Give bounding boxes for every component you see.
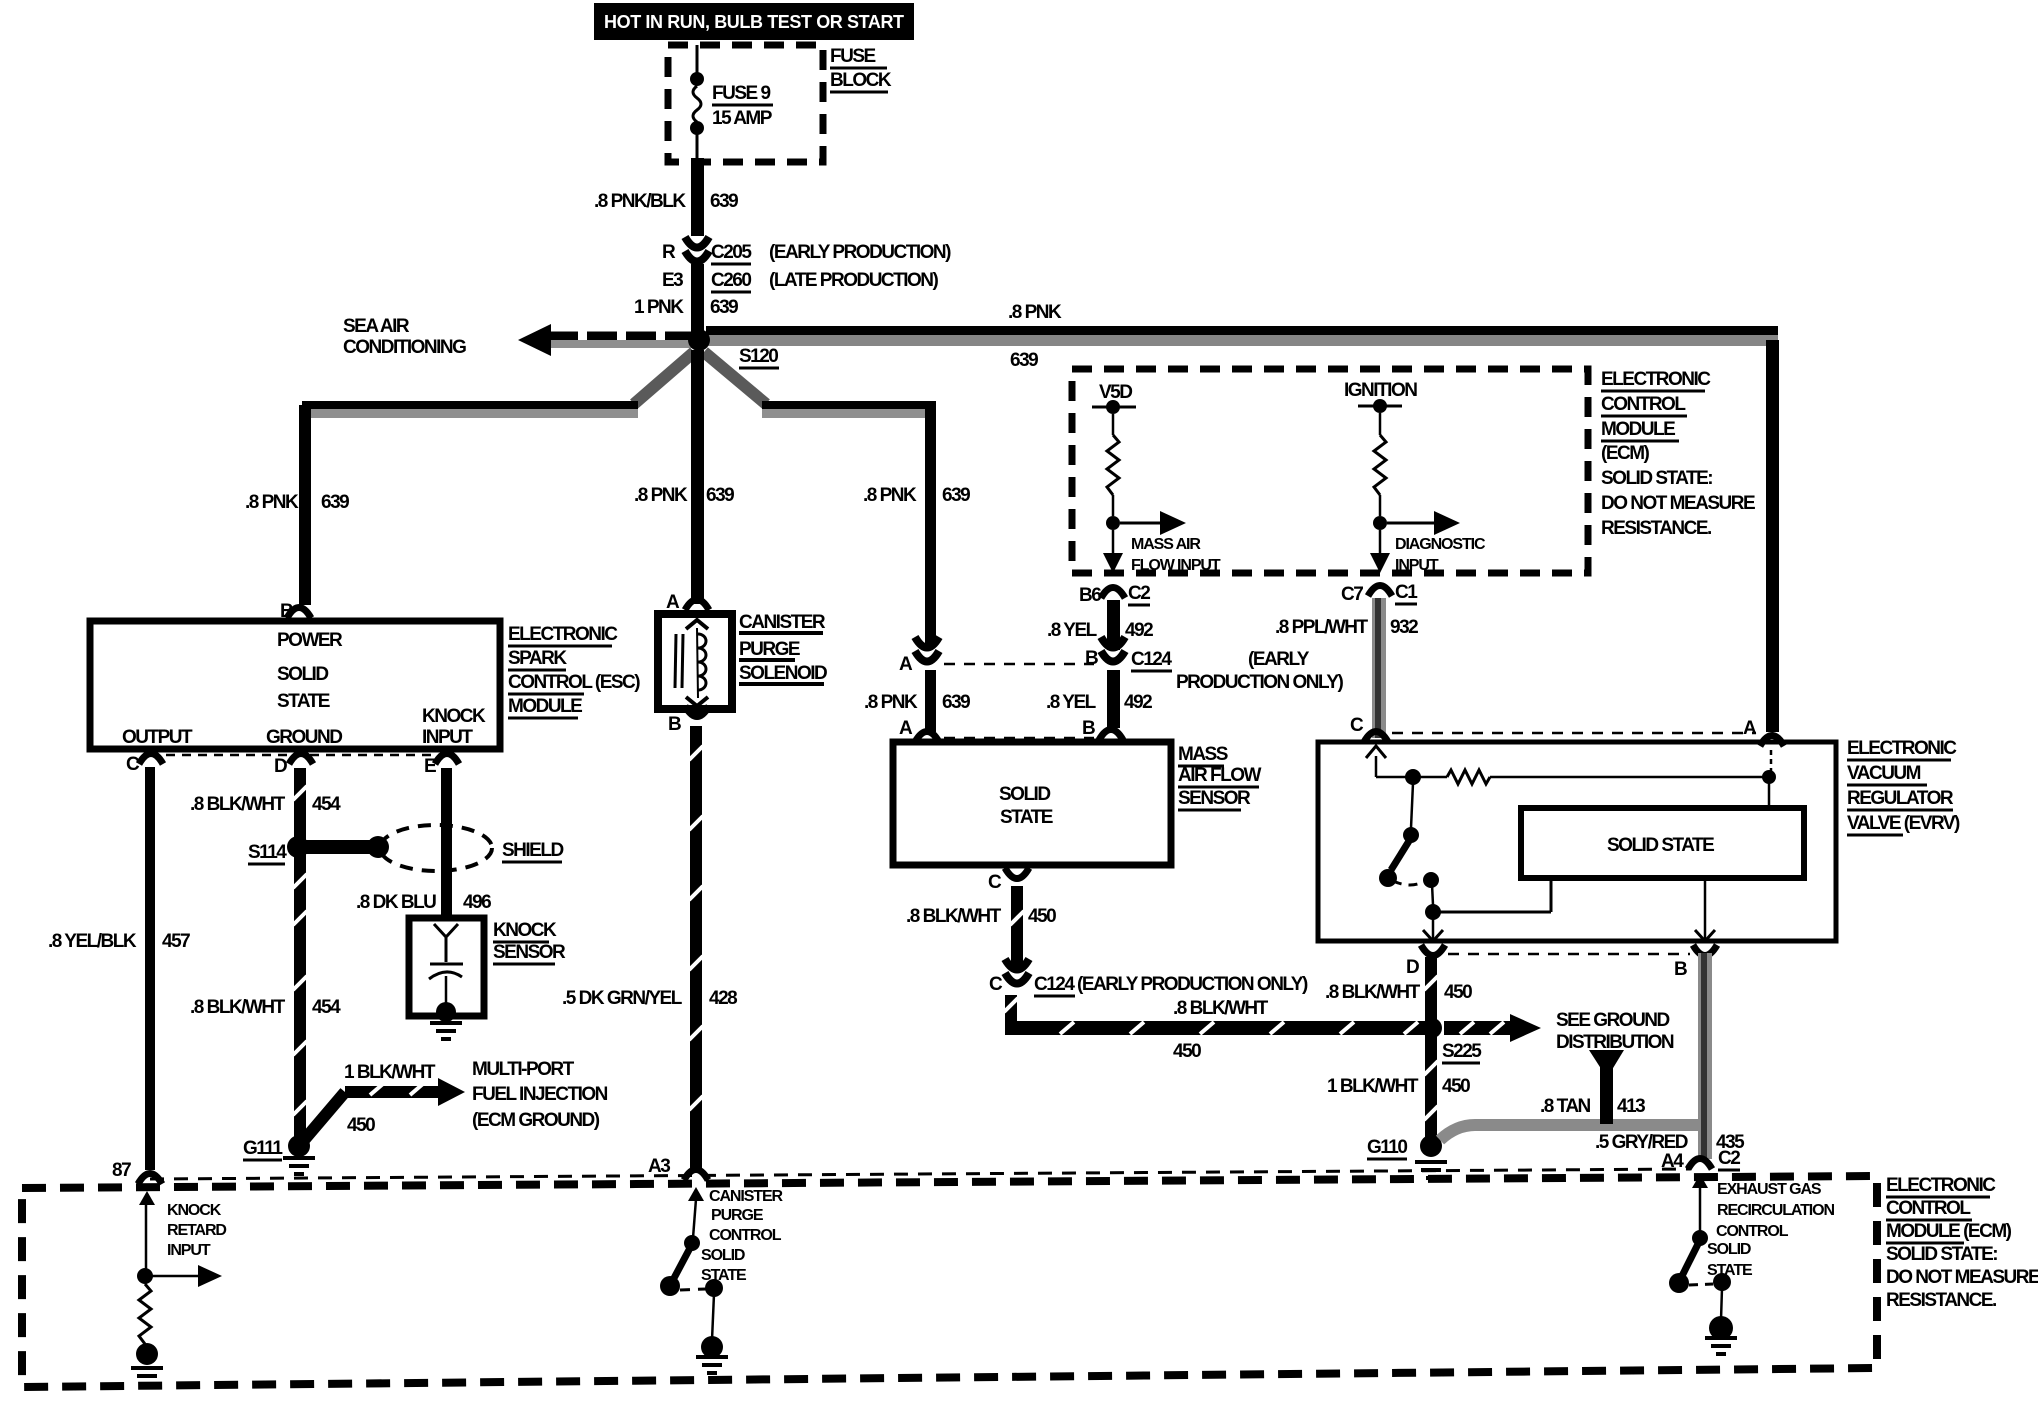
svg-text:OUTPUT: OUTPUT (122, 727, 193, 748)
svg-text:ELECTRONIC: ELECTRONIC (508, 624, 618, 645)
svg-text:.8 BLK/WHT: .8 BLK/WHT (906, 906, 1002, 927)
svg-text:STATE: STATE (1000, 807, 1053, 828)
svg-text:FUEL INJECTION: FUEL INJECTION (472, 1084, 608, 1105)
svg-text:C124: C124 (1131, 649, 1172, 670)
svg-text:MODULE (ECM): MODULE (ECM) (1886, 1221, 2012, 1242)
svg-text:RECIRCULATION: RECIRCULATION (1717, 1202, 1834, 1219)
svg-text:15 AMP: 15 AMP (712, 108, 773, 129)
svg-text:1 BLK/WHT: 1 BLK/WHT (1327, 1076, 1419, 1097)
svg-text:DO NOT MEASURE: DO NOT MEASURE (1886, 1267, 2038, 1288)
svg-text:CONTROL: CONTROL (1716, 1223, 1789, 1240)
svg-text:B6: B6 (1079, 585, 1101, 606)
svg-text:D: D (1406, 957, 1419, 978)
svg-text:639: 639 (321, 492, 349, 513)
svg-text:SENSOR: SENSOR (1178, 788, 1251, 809)
svg-text:DISTRIBUTION: DISTRIBUTION (1556, 1032, 1674, 1053)
svg-text:492: 492 (1125, 620, 1153, 641)
svg-text:.8 DK BLU: .8 DK BLU (356, 892, 436, 913)
svg-text:E3: E3 (662, 270, 683, 291)
svg-text:C2: C2 (1718, 1148, 1740, 1169)
svg-text:496: 496 (463, 892, 491, 913)
svg-text:C1: C1 (1395, 582, 1418, 603)
svg-text:SEA AIR: SEA AIR (343, 316, 410, 337)
svg-text:S225: S225 (1442, 1041, 1482, 1062)
svg-text:CONTROL (ESC): CONTROL (ESC) (508, 672, 640, 693)
svg-text:SHIELD: SHIELD (502, 840, 563, 861)
svg-text:639: 639 (706, 485, 734, 506)
svg-text:CONTROL: CONTROL (1886, 1198, 1971, 1219)
svg-text:S114: S114 (248, 842, 287, 863)
svg-text:SOLID STATE:: SOLID STATE: (1601, 468, 1712, 489)
svg-text:C260: C260 (711, 270, 751, 291)
svg-text:639: 639 (942, 692, 970, 713)
svg-text:CANISTER: CANISTER (739, 612, 826, 633)
svg-text:413: 413 (1617, 1096, 1645, 1117)
svg-text:932: 932 (1390, 617, 1418, 638)
svg-text:450: 450 (1028, 906, 1056, 927)
svg-text:D: D (274, 756, 287, 777)
svg-text:CONTROL: CONTROL (709, 1227, 782, 1244)
svg-text:.8 BLK/WHT: .8 BLK/WHT (190, 794, 286, 815)
svg-text:STATE: STATE (277, 691, 330, 712)
svg-text:.8 BLK/WHT: .8 BLK/WHT (1173, 998, 1269, 1019)
svg-text:A: A (899, 654, 913, 675)
svg-text:C: C (1350, 715, 1364, 736)
svg-text:ELECTRONIC: ELECTRONIC (1847, 738, 1957, 759)
svg-text:450: 450 (1442, 1076, 1470, 1097)
svg-text:1 PNK: 1 PNK (634, 297, 684, 318)
svg-text:(EARLY PRODUCTION): (EARLY PRODUCTION) (769, 242, 951, 263)
svg-text:E: E (424, 756, 436, 777)
svg-text:.8 PNK/BLK: .8 PNK/BLK (594, 191, 686, 212)
svg-text:639: 639 (1010, 350, 1038, 371)
svg-text:HOT IN RUN, BULB TEST OR START: HOT IN RUN, BULB TEST OR START (604, 12, 904, 32)
svg-text:STATE: STATE (1707, 1262, 1753, 1279)
svg-text:FLOW INPUT: FLOW INPUT (1131, 557, 1221, 574)
svg-text:B: B (1085, 648, 1098, 669)
svg-text:(LATE PRODUCTION): (LATE PRODUCTION) (769, 270, 939, 291)
svg-text:PRODUCTION ONLY): PRODUCTION ONLY) (1176, 672, 1344, 693)
svg-text:STATE: STATE (701, 1267, 747, 1284)
svg-text:ELECTRONIC: ELECTRONIC (1601, 369, 1711, 390)
svg-text:ELECTRONIC: ELECTRONIC (1886, 1175, 1996, 1196)
svg-text:.8 YEL: .8 YEL (1046, 692, 1097, 713)
svg-text:INPUT: INPUT (1395, 557, 1439, 574)
svg-text:C124: C124 (1034, 974, 1075, 995)
svg-text:MASS: MASS (1178, 744, 1228, 765)
svg-text:BLOCK: BLOCK (830, 70, 892, 91)
svg-text:.8 PNK: .8 PNK (864, 692, 918, 713)
svg-text:INPUT: INPUT (422, 727, 473, 748)
svg-text:R: R (662, 242, 676, 263)
svg-text:A: A (1743, 718, 1757, 739)
svg-text:(EARLY PRODUCTION ONLY): (EARLY PRODUCTION ONLY) (1077, 974, 1308, 995)
svg-text:1 BLK/WHT: 1 BLK/WHT (344, 1062, 436, 1083)
svg-text:G111: G111 (243, 1138, 283, 1159)
svg-text:SOLID: SOLID (701, 1247, 745, 1264)
svg-text:.8 YEL: .8 YEL (1047, 620, 1098, 641)
svg-text:SENSOR: SENSOR (493, 942, 566, 963)
svg-text:CONDITIONING: CONDITIONING (343, 337, 466, 358)
svg-text:SOLID STATE:: SOLID STATE: (1886, 1244, 1997, 1265)
svg-text:(ECM GROUND): (ECM GROUND) (472, 1110, 600, 1131)
svg-text:C7: C7 (1341, 584, 1363, 605)
svg-text:MULTI-PORT: MULTI-PORT (472, 1059, 575, 1080)
svg-text:S120: S120 (739, 346, 778, 367)
svg-text:V5D: V5D (1099, 382, 1132, 403)
svg-text:FUSE: FUSE (830, 46, 876, 67)
svg-text:SPARK: SPARK (508, 648, 567, 669)
svg-text:457: 457 (162, 931, 190, 952)
svg-text:MASS AIR: MASS AIR (1131, 536, 1201, 553)
svg-text:CONTROL: CONTROL (1601, 394, 1686, 415)
svg-text:DO NOT MEASURE: DO NOT MEASURE (1601, 493, 1755, 514)
svg-text:FUSE 9: FUSE 9 (712, 83, 770, 104)
svg-text:KNOCK: KNOCK (422, 706, 486, 727)
svg-text:C2: C2 (1128, 583, 1150, 604)
svg-text:PURGE: PURGE (711, 1207, 764, 1224)
svg-text:VACUUM: VACUUM (1847, 763, 1921, 784)
svg-text:C: C (988, 872, 1002, 893)
svg-text:B: B (668, 714, 681, 735)
svg-text:MODULE: MODULE (508, 696, 582, 717)
svg-text:.8 PNK: .8 PNK (245, 492, 299, 513)
svg-text:EXHAUST GAS: EXHAUST GAS (1717, 1181, 1822, 1198)
svg-text:KNOCK: KNOCK (167, 1202, 222, 1219)
svg-text:.8 BLK/WHT: .8 BLK/WHT (190, 997, 286, 1018)
svg-text:RETARD: RETARD (167, 1222, 226, 1239)
svg-text:.8 BLK/WHT: .8 BLK/WHT (1325, 982, 1421, 1003)
svg-text:(ECM): (ECM) (1601, 443, 1650, 464)
svg-text:.8 PNK: .8 PNK (634, 485, 688, 506)
svg-text:IGNITION: IGNITION (1344, 380, 1417, 401)
svg-text:.8 YEL/BLK: .8 YEL/BLK (48, 931, 137, 952)
svg-text:SOLID: SOLID (277, 664, 328, 685)
svg-text:B: B (1082, 718, 1095, 739)
svg-text:.5 DK GRN/YEL: .5 DK GRN/YEL (562, 988, 683, 1009)
svg-text:639: 639 (710, 191, 738, 212)
svg-text:639: 639 (710, 297, 738, 318)
svg-text:CANISTER: CANISTER (709, 1188, 784, 1205)
svg-text:(EARLY: (EARLY (1248, 649, 1310, 670)
svg-text:VALVE (EVRV): VALVE (EVRV) (1847, 813, 1960, 834)
svg-text:RESISTANCE.: RESISTANCE. (1886, 1290, 1996, 1311)
svg-text:AIR FLOW: AIR FLOW (1178, 765, 1261, 786)
svg-text:REGULATOR: REGULATOR (1847, 788, 1954, 809)
svg-text:450: 450 (1444, 982, 1472, 1003)
svg-text:SOLID: SOLID (1707, 1241, 1751, 1258)
svg-text:A3: A3 (648, 1156, 670, 1177)
svg-text:PURGE: PURGE (739, 639, 800, 660)
svg-text:SOLENOID: SOLENOID (739, 663, 827, 684)
svg-text:C: C (989, 974, 1003, 995)
svg-text:428: 428 (709, 988, 737, 1009)
svg-text:G110: G110 (1367, 1137, 1407, 1158)
svg-text:.8 PNK: .8 PNK (1008, 302, 1062, 323)
svg-text:.8 PNK: .8 PNK (863, 485, 917, 506)
svg-text:A: A (899, 718, 913, 739)
svg-text:RESISTANCE.: RESISTANCE. (1601, 518, 1711, 539)
svg-text:POWER: POWER (277, 630, 343, 651)
svg-text:.8 PPL/WHT: .8 PPL/WHT (1275, 617, 1369, 638)
svg-text:SOLID: SOLID (999, 784, 1050, 805)
svg-text:B: B (1674, 959, 1687, 980)
svg-text:MODULE: MODULE (1601, 419, 1675, 440)
svg-text:450: 450 (347, 1115, 375, 1136)
svg-text:.8 TAN: .8 TAN (1540, 1096, 1591, 1117)
svg-text:492: 492 (1124, 692, 1152, 713)
svg-text:454: 454 (312, 997, 341, 1018)
svg-text:INPUT: INPUT (167, 1242, 211, 1259)
svg-text:454: 454 (312, 794, 341, 815)
svg-text:87: 87 (112, 1160, 131, 1181)
svg-text:GROUND: GROUND (266, 727, 342, 748)
svg-text:DIAGNOSTIC: DIAGNOSTIC (1395, 536, 1486, 553)
svg-text:SOLID STATE: SOLID STATE (1607, 835, 1714, 856)
svg-text:639: 639 (942, 485, 970, 506)
svg-text:KNOCK: KNOCK (493, 920, 557, 941)
svg-text:.5 GRY/RED: .5 GRY/RED (1595, 1132, 1688, 1153)
svg-text:A: A (666, 592, 680, 613)
svg-text:SEE GROUND: SEE GROUND (1556, 1010, 1670, 1031)
svg-text:C205: C205 (711, 242, 752, 263)
svg-text:C: C (126, 754, 140, 775)
svg-text:450: 450 (1173, 1041, 1201, 1062)
